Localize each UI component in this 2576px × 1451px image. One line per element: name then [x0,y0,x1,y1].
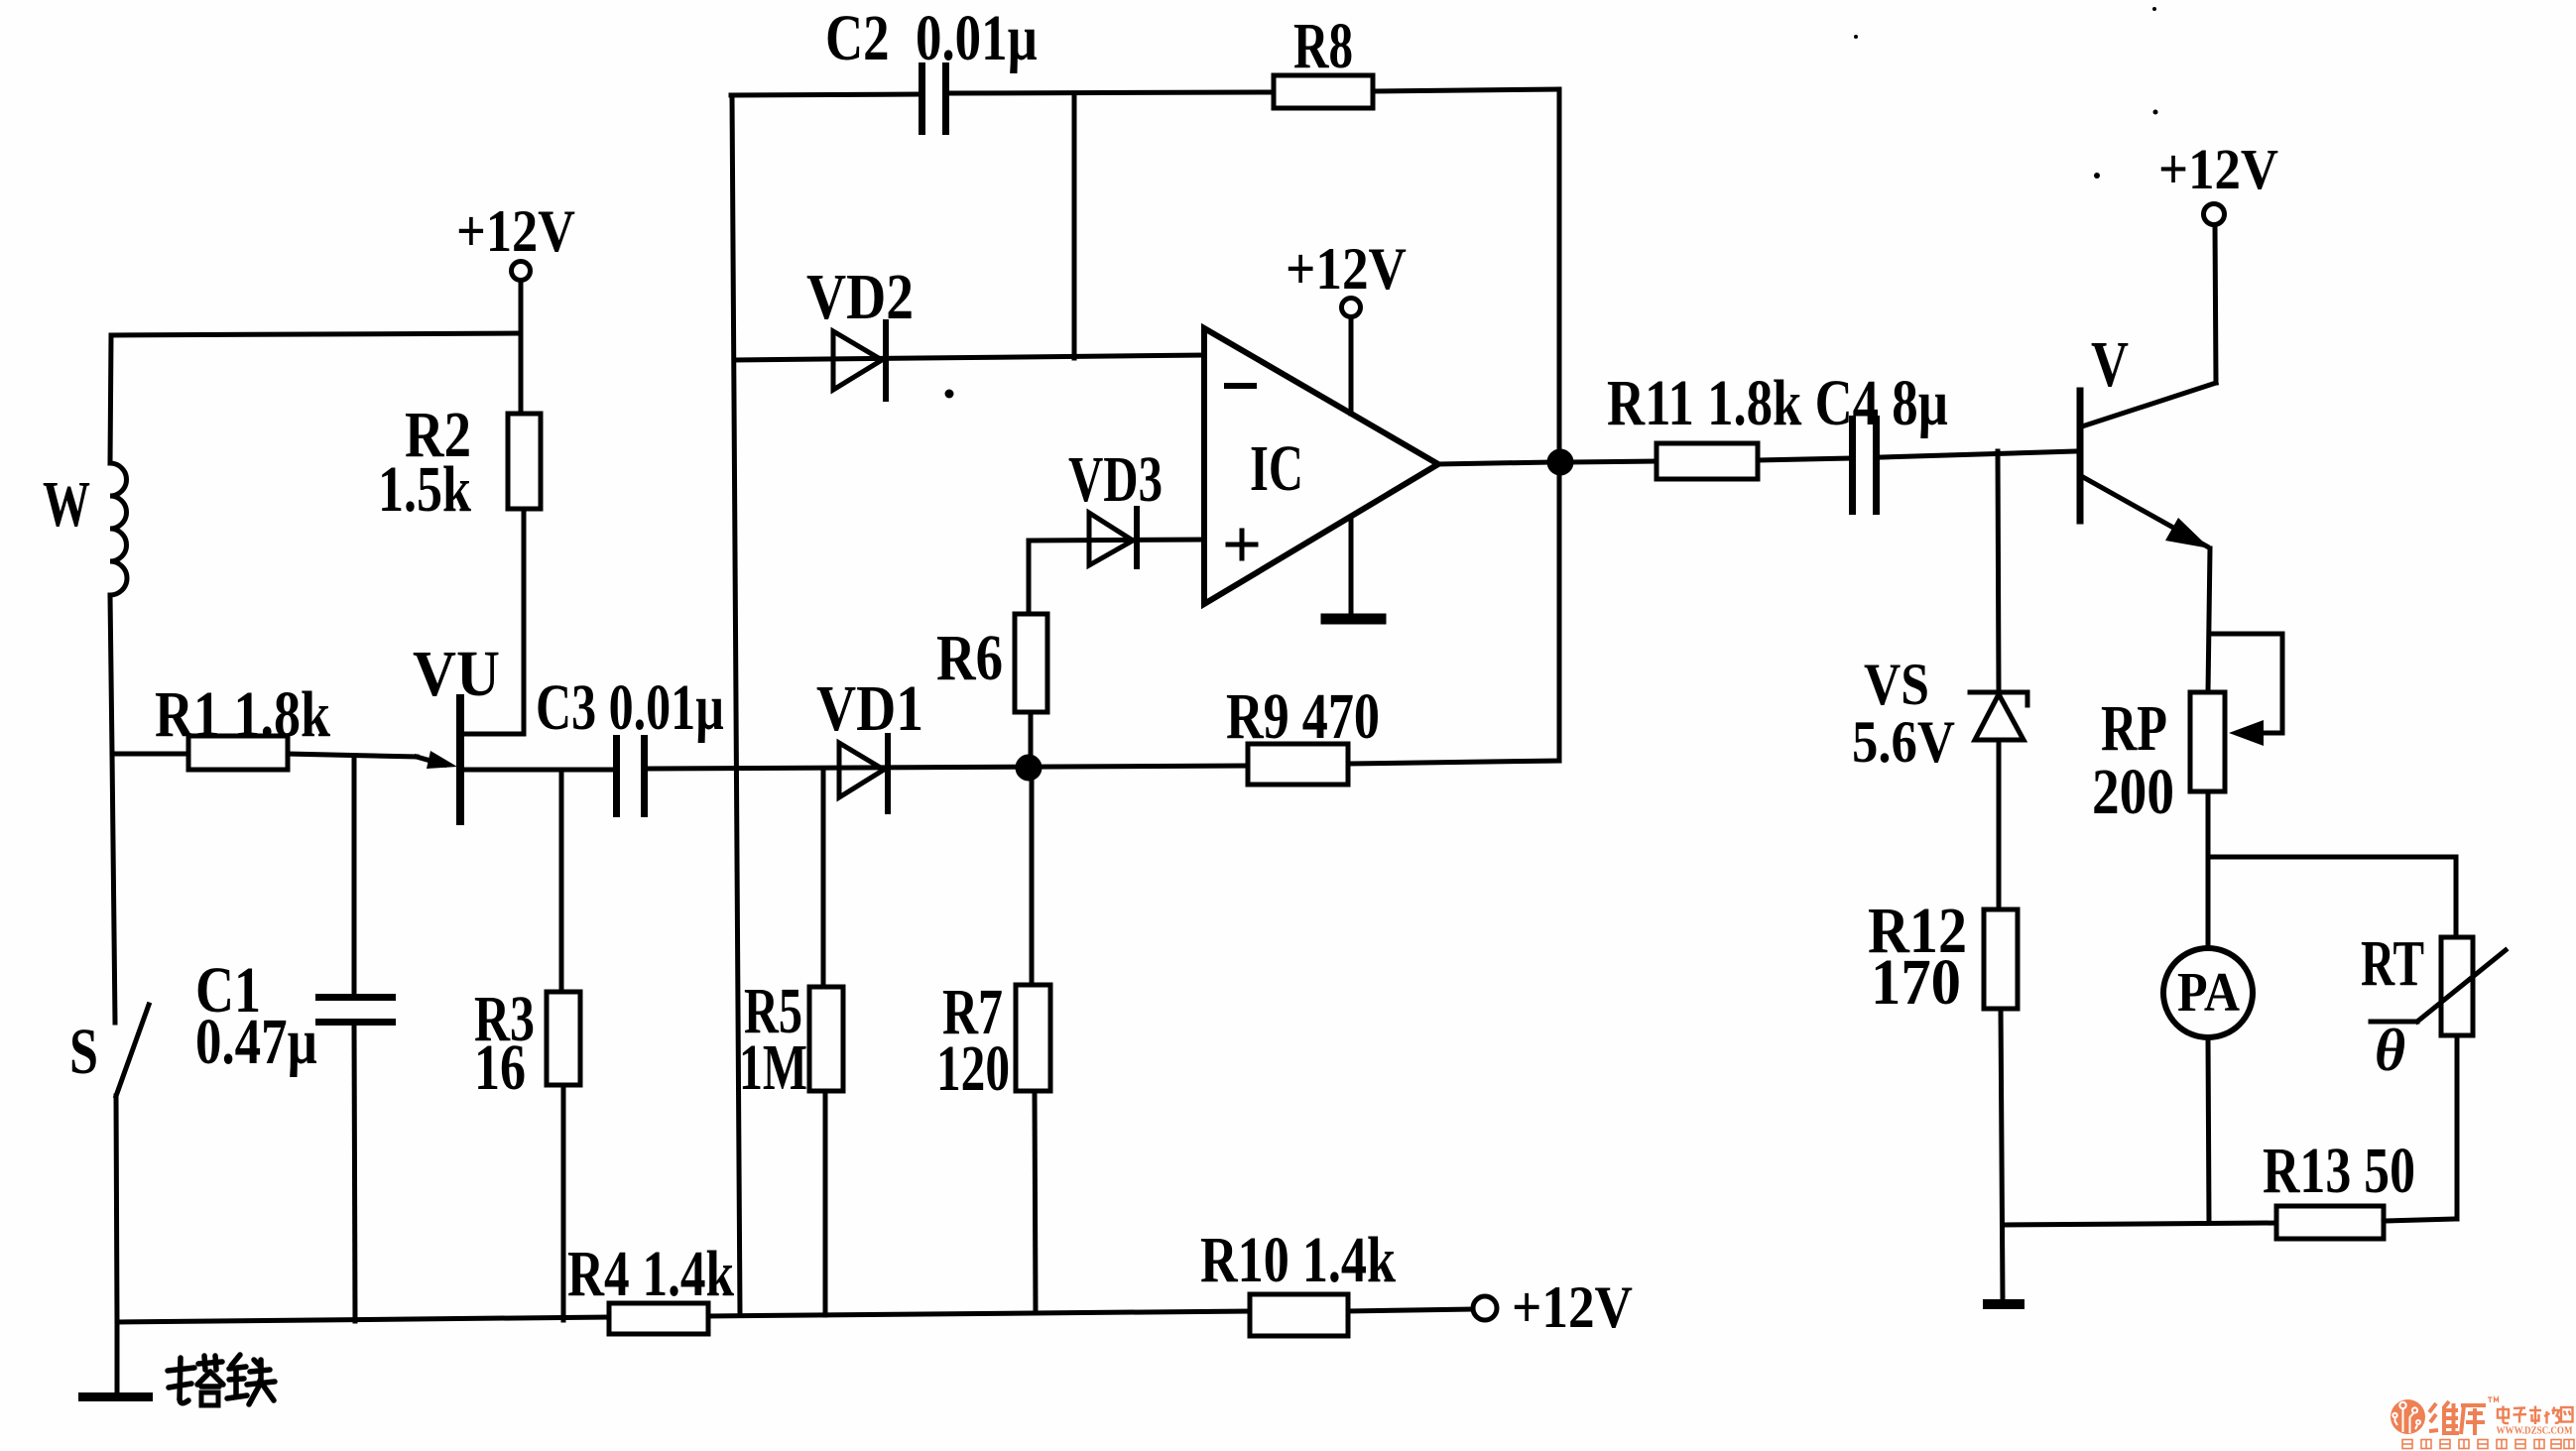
svg-text:R10 1.4k: R10 1.4k [1200,1224,1396,1296]
svg-text:0.47µ: 0.47µ [195,1006,317,1078]
svg-text:120: 120 [936,1032,1010,1105]
svg-text:VD1: VD1 [816,672,923,745]
svg-text:V: V [2091,328,2129,401]
svg-text:R1 1.8k: R1 1.8k [155,678,330,751]
svg-text:5.6V: 5.6V [1852,709,1955,775]
svg-text:RT: RT [2361,927,2424,1000]
svg-text:+12V: +12V [456,198,575,264]
svg-text:1M: 1M [739,1031,807,1104]
svg-text:W: W [43,468,90,541]
svg-text:R8: R8 [1293,10,1353,82]
svg-text:170: 170 [1871,946,1961,1019]
svg-text:VD2: VD2 [806,261,914,333]
svg-text:VU: VU [413,638,500,710]
svg-text:16: 16 [474,1031,526,1104]
svg-text:R13 50: R13 50 [2263,1135,2415,1207]
svg-text:R11 1.8k C4 8µ: R11 1.8k C4 8µ [1607,367,1948,439]
svg-text:R6: R6 [936,622,1003,694]
svg-text:200: 200 [2092,756,2174,828]
svg-text:+12V: +12V [1286,236,1407,302]
svg-text:WWW.DZSC.COM: WWW.DZSC.COM [2497,1426,2573,1437]
svg-text:VS: VS [1864,652,1929,717]
svg-text:VD3: VD3 [1068,443,1163,516]
svg-text:S: S [69,1016,98,1088]
svg-text:RP: RP [2101,692,2167,765]
svg-text:C2 0.01µ: C2 0.01µ [825,2,1038,74]
svg-text:θ: θ [2375,1018,2405,1083]
svg-text:IC: IC [1250,432,1303,505]
svg-text:PA: PA [2177,962,2240,1024]
svg-text:C3 0.01µ: C3 0.01µ [536,671,724,744]
svg-text:R9 470: R9 470 [1226,680,1380,753]
svg-text:R4 1.4k: R4 1.4k [567,1238,734,1310]
svg-text:+12V: +12V [2158,137,2278,201]
svg-text:1.5k: 1.5k [378,453,471,526]
svg-text:+12V: +12V [1512,1274,1633,1340]
